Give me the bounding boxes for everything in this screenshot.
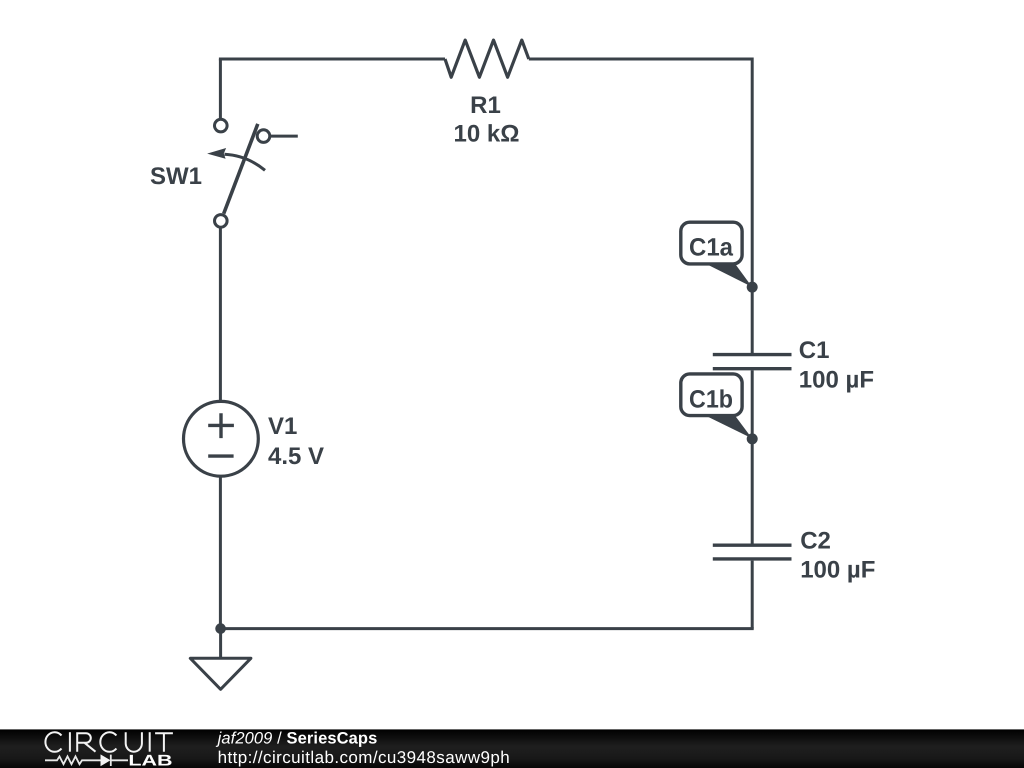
- node C1b: [747, 433, 758, 444]
- capacitor C2: [713, 545, 792, 559]
- logo letter R: [77, 733, 95, 752]
- svg-text:jaf2009 / SeriesCaps: jaf2009 / SeriesCaps: [216, 730, 378, 748]
- svg-text:4.5 V: 4.5 V: [268, 443, 324, 470]
- flag C1b tail: [706, 414, 752, 438]
- svg-text:R1: R1: [470, 92, 501, 119]
- switch arc: [225, 154, 266, 170]
- svg-text:10 kΩ: 10 kΩ: [454, 121, 520, 148]
- logo letter T: [155, 733, 173, 752]
- switch throw terminal circle: [257, 130, 270, 143]
- flag C1b balloon: [681, 374, 742, 416]
- logo letter U: [126, 732, 142, 751]
- logo diode triangle: [101, 754, 111, 766]
- capacitor C1: [713, 355, 792, 369]
- switch arrow head: [207, 148, 226, 159]
- switch blade: [224, 124, 258, 214]
- wire ground stem: [219, 627, 222, 658]
- wire top horizontal right of R1: [529, 58, 752, 61]
- switch SW1: [207, 119, 270, 227]
- wire switch throw stub: [271, 135, 298, 138]
- svg-text:LAB: LAB: [128, 752, 172, 768]
- wire top-left vertical: [219, 59, 222, 118]
- switch pole terminal circle: [215, 119, 228, 132]
- svg-text:C2: C2: [800, 528, 831, 555]
- svg-text:100 µF: 100 µF: [800, 557, 875, 584]
- svg-text:C1a: C1a: [689, 234, 734, 262]
- svg-text:C1b: C1b: [689, 386, 733, 414]
- wire below C2 to bottom corner: [751, 561, 754, 629]
- switch bottom terminal circle: [215, 215, 228, 228]
- svg-text:100 µF: 100 µF: [799, 367, 874, 394]
- flag C1a balloon: [681, 222, 742, 264]
- footer bar: [0, 729, 1024, 768]
- svg-text:SW1: SW1: [150, 163, 202, 190]
- logo resistor-diode line: [45, 755, 128, 766]
- voltage source V1: [184, 401, 259, 476]
- svg-text:C1: C1: [799, 337, 830, 364]
- logo CIRCUIT lettering: [45, 732, 172, 752]
- wire switch to V1: [219, 228, 222, 404]
- wire bottom horizontal: [221, 627, 754, 630]
- wire top horizontal left of R1: [219, 58, 445, 61]
- wire V1 to bottom node: [219, 475, 222, 629]
- wire right vertical upper (to C1 top plate): [751, 58, 754, 354]
- logo letter I: [149, 732, 151, 752]
- svg-text:http://circuitlab.com/cu3948sa: http://circuitlab.com/cu3948saww9ph: [218, 748, 511, 767]
- svg-text:V1: V1: [268, 413, 297, 440]
- logo letter C: [100, 732, 116, 752]
- ground: [190, 658, 251, 689]
- logo letter I: [69, 732, 71, 752]
- node C1a: [747, 282, 758, 293]
- node bottom junction: [215, 623, 226, 634]
- flag C1a tail: [706, 262, 752, 287]
- logo letter C: [45, 732, 61, 752]
- wire between C1 and C2: [751, 370, 754, 543]
- resistor R1: [445, 40, 529, 77]
